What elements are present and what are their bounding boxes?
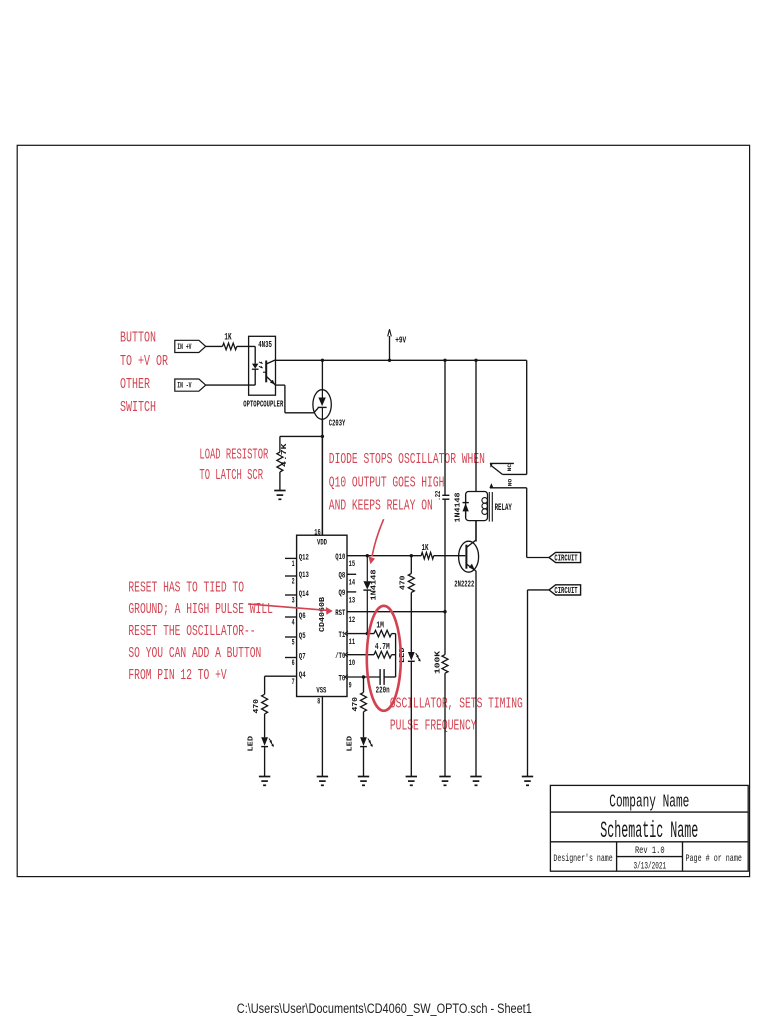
svg-text:5: 5 [292,638,295,648]
svg-text:2N2222: 2N2222 [454,578,474,589]
svg-text:470: 470 [352,696,360,711]
svg-text:C:\Users\User\Documents\CD4060: C:\Users\User\Documents\CD4060_SW_OPTO.s… [237,1001,532,1016]
svg-text:470: 470 [400,575,408,590]
svg-text:DIODE STOPS OSCILLATOR WHEN: DIODE STOPS OSCILLATOR WHEN [329,452,485,468]
svg-text:3/13/2021: 3/13/2021 [633,861,666,873]
svg-text:.22: .22 [435,491,443,501]
svg-text:LED: LED [347,735,355,751]
svg-text:LED: LED [248,735,256,751]
svg-text:Rev 1.0: Rev 1.0 [635,846,665,857]
svg-text:T0: T0 [339,673,346,683]
svg-text:9: 9 [349,680,352,690]
svg-text:AND KEEPS RELAY ON: AND KEEPS RELAY ON [329,499,433,515]
svg-text:RESET THE OSCILLATOR--: RESET THE OSCILLATOR-- [128,624,255,640]
svg-text:1K: 1K [224,332,231,343]
svg-text:RELAY: RELAY [495,503,512,514]
svg-text:16: 16 [314,528,321,538]
svg-text:SWITCH: SWITCH [120,400,156,416]
svg-text:Q13: Q13 [299,570,309,580]
svg-text:6: 6 [292,658,295,668]
svg-text:11: 11 [349,637,356,647]
svg-text:CIRCUIT: CIRCUIT [554,553,578,563]
svg-text:PULSE FREQUENCY: PULSE FREQUENCY [390,718,477,734]
svg-text:LOAD RESISTOR: LOAD RESISTOR [199,448,268,464]
svg-text:Page # or name: Page # or name [686,853,742,865]
svg-text:SO YOU CAN ADD A BUTTON: SO YOU CAN ADD A BUTTON [128,646,261,662]
svg-text:TO LATCH SCR: TO LATCH SCR [199,468,263,484]
svg-text:Q8: Q8 [339,571,346,581]
svg-text:TO +V OR: TO +V OR [120,354,168,370]
svg-text:3: 3 [292,596,295,606]
svg-text:470: 470 [253,698,261,713]
svg-text:Schematic Name: Schematic Name [600,818,698,845]
svg-text:Designer's name: Designer's name [553,853,612,865]
svg-text:15: 15 [349,559,356,569]
svg-text:Q4: Q4 [299,670,306,680]
svg-text:Q10 OUTPUT GOES HIGH: Q10 OUTPUT GOES HIGH [329,476,445,492]
svg-text:4: 4 [292,618,295,628]
svg-text:14: 14 [349,578,356,588]
svg-text:1N4148: 1N4148 [455,493,463,523]
svg-text:RESET HAS TO TIED TO: RESET HAS TO TIED TO [128,580,244,596]
svg-text:100K: 100K [435,650,443,674]
svg-text:8: 8 [317,696,320,706]
svg-text:FROM PIN 12 TO +V: FROM PIN 12 TO +V [128,668,226,684]
svg-text:OSCILLATOR, SETS TIMING: OSCILLATOR, SETS TIMING [390,696,523,712]
svg-text:IN -V: IN -V [177,382,191,391]
svg-text:IN +V: IN +V [177,343,191,352]
svg-text:1N4148: 1N4148 [370,570,378,601]
svg-text:+9V: +9V [395,335,406,346]
svg-text:Q9: Q9 [339,588,346,598]
svg-text:4.7K: 4.7K [281,443,289,467]
svg-text:VSS: VSS [316,685,326,695]
svg-text:2: 2 [292,577,295,587]
svg-text:220n: 220n [376,685,390,696]
svg-text:7: 7 [292,677,295,687]
svg-text:VDD: VDD [317,537,327,547]
svg-text:1K: 1K [422,542,429,553]
svg-text:/T0: /T0 [335,651,345,661]
svg-text:CD4060B: CD4060B [319,596,327,632]
svg-text:Q5: Q5 [299,631,306,641]
svg-text:NO: NO [507,478,514,486]
svg-text:10: 10 [349,658,356,668]
svg-text:4.7M: 4.7M [375,641,390,652]
svg-text:1M: 1M [376,620,384,631]
svg-text:Company Name: Company Name [609,791,689,812]
svg-text:CIRCUIT: CIRCUIT [554,586,578,596]
svg-text:Q7: Q7 [299,651,306,661]
svg-text:13: 13 [349,595,356,605]
svg-text:T1: T1 [339,630,346,640]
svg-text:OTHER: OTHER [120,377,150,393]
svg-text:Q10: Q10 [335,552,345,562]
svg-text:1: 1 [292,559,295,569]
svg-text:RST: RST [335,608,345,618]
svg-text:Q12: Q12 [299,552,309,562]
svg-text:BUTTON: BUTTON [120,331,156,347]
svg-text:C203Y: C203Y [329,418,346,429]
svg-text:NC: NC [506,463,513,471]
svg-text:12: 12 [349,615,356,625]
svg-text:4N35: 4N35 [258,339,272,350]
svg-text:OPTOPCOUPLER: OPTOPCOUPLER [243,398,283,409]
svg-text:Q14: Q14 [299,589,309,599]
svg-text:Q6: Q6 [299,611,306,621]
